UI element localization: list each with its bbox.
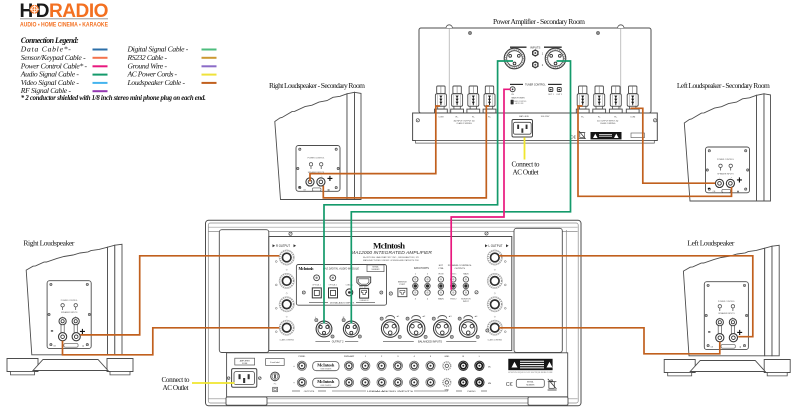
svg-text:GND: GND bbox=[444, 356, 449, 358]
svg-text:AC Outlet: AC Outlet bbox=[163, 384, 189, 392]
RCA jack 3 bottom row bbox=[393, 378, 402, 387]
small symbol square bbox=[273, 387, 278, 391]
RCA jack 1 bottom row bbox=[361, 378, 370, 387]
svg-text:Left Loudspeaker - Secondary R: Left Loudspeaker - Secondary Room bbox=[677, 81, 770, 90]
svg-text:OUT 2: OUT 2 bbox=[556, 94, 563, 96]
svg-text:C€: C€ bbox=[506, 382, 513, 388]
svg-text:+: + bbox=[327, 174, 333, 185]
svg-text:POWER CONTROL: POWER CONTROL bbox=[512, 101, 526, 103]
amp binding post R3 bbox=[279, 297, 294, 312]
output 2 XLR connectors bbox=[315, 317, 334, 338]
svg-text:USB AUDIO: USB AUDIO bbox=[359, 299, 369, 302]
svg-text:R-: R- bbox=[472, 117, 475, 119]
svg-text:CLASS 2 WIRING: CLASS 2 WIRING bbox=[456, 122, 472, 125]
amp binding post R1 bbox=[279, 250, 294, 265]
svg-text:POWER CONTROL: POWER CONTROL bbox=[61, 300, 78, 302]
wire: power control cable trigger bbox=[451, 89, 510, 289]
svg-text:SPEAKER INPUTS: SPEAKER INPUTS bbox=[718, 312, 735, 315]
svg-text:POWER CONTROL: POWER CONTROL bbox=[718, 301, 735, 303]
speaker: left loudspeaker main bbox=[664, 245, 790, 376]
svg-text:POWER CONTROL: POWER CONTROL bbox=[717, 159, 734, 161]
svg-text:AUDIO ▪ HOME CINEMA ▪ KARAOKE: AUDIO ▪ HOME CINEMA ▪ KARAOKE bbox=[20, 21, 109, 28]
amp binding post R4 bbox=[279, 320, 294, 335]
service port bbox=[398, 282, 407, 297]
svg-text:Left Loudspeaker: Left Loudspeaker bbox=[687, 238, 735, 247]
svg-text:MM: MM bbox=[488, 383, 492, 385]
svg-text:UNBALANCED INPUTS: UNBALANCED INPUTS bbox=[367, 390, 414, 393]
wire: AC power cord power amp bbox=[524, 137, 526, 159]
svg-text:OPTICAL 2: OPTICAL 2 bbox=[329, 283, 338, 286]
svg-text:* 2 conductor shielded with 1/: * 2 conductor shielded with 1/8 inch ste… bbox=[21, 95, 206, 102]
svg-text:MC: MC bbox=[488, 367, 492, 369]
svg-text:McIntosh: McIntosh bbox=[299, 266, 315, 271]
power control round connector bbox=[271, 372, 280, 386]
svg-text:CLASS 2 WIRING: CLASS 2 WIRING bbox=[279, 338, 294, 341]
svg-text:▮▮: ▮▮ bbox=[737, 190, 739, 193]
svg-text:GND: GND bbox=[445, 390, 450, 392]
panel screw right of balanced inputs bbox=[486, 329, 489, 332]
RCA jack 3 top row bbox=[393, 361, 402, 370]
svg-text:PWRD: PWRD bbox=[299, 356, 306, 358]
svg-text:TRIG 2: TRIG 2 bbox=[450, 299, 457, 301]
svg-text:HDMI (ARC): HDMI (ARC) bbox=[359, 285, 369, 288]
output 2 label bbox=[315, 340, 358, 343]
power amp CE + WEEE + warning label bbox=[570, 131, 644, 140]
phono jacks bbox=[459, 361, 484, 387]
WEEE bin icon bbox=[548, 379, 557, 390]
svg-text:BALANCED INPUTS: BALANCED INPUTS bbox=[418, 340, 442, 343]
McIntosh logo + model text bbox=[351, 240, 433, 261]
svg-text:PHONO: PHONO bbox=[467, 391, 475, 393]
wire: AC power cord integrated amp bbox=[192, 382, 235, 384]
power amp AC inlet bbox=[512, 115, 550, 137]
svg-text:INPUTS: INPUTS bbox=[530, 45, 540, 49]
svg-text:McIntosh: McIntosh bbox=[317, 363, 335, 368]
amp AC inlet bbox=[227, 369, 261, 388]
RCA jack PWR AMP top row bbox=[344, 361, 353, 370]
svg-text:OUTPUTS: OUTPUTS bbox=[455, 268, 466, 270]
svg-text:PORT: PORT bbox=[400, 284, 406, 286]
svg-text:◇: ◇ bbox=[494, 292, 496, 295]
svg-text:4Ω INPUT OUTPUT 4Ω: 4Ω INPUT OUTPUT 4Ω bbox=[453, 120, 475, 122]
amp binding post L1 bbox=[487, 250, 502, 265]
svg-text:◇: ◇ bbox=[286, 315, 288, 318]
power amp XLR input right bbox=[545, 48, 566, 69]
svg-text:SPEAKER INPUTS: SPEAKER INPUTS bbox=[61, 311, 78, 314]
wire: loudspeaker cable MA L4 to bottom-right speaker - bbox=[499, 328, 720, 354]
panel screw right of DA2 bbox=[389, 292, 392, 295]
wire: loudspeaker cable MA R1 to bottom-left speaker + bbox=[80, 256, 279, 335]
power amp base labels bbox=[416, 117, 657, 126]
power amp TUNER CONTROL header bbox=[510, 84, 562, 87]
svg-text:+: + bbox=[737, 176, 743, 187]
power amp binding post R1 bbox=[576, 86, 589, 113]
svg-text:MAIN POWER: MAIN POWER bbox=[511, 97, 525, 100]
svg-text:POWER CONTROL: POWER CONTROL bbox=[308, 157, 325, 159]
RCA jack labels bbox=[293, 355, 491, 385]
svg-text:INPUT: INPUT bbox=[463, 301, 470, 303]
svg-text:SERIAL: SERIAL bbox=[527, 381, 534, 384]
svg-text:McIntosh: McIntosh bbox=[317, 379, 335, 384]
wire: loudspeaker cable PA-R COM to top-right speaker - bbox=[631, 108, 716, 183]
svg-text:McIntosh: McIntosh bbox=[373, 240, 405, 250]
speaker: right loudspeaker main bbox=[7, 244, 133, 375]
power control label box bbox=[266, 359, 285, 366]
label: connect to AC outlet (power amp) bbox=[512, 161, 540, 177]
main rear panel bbox=[269, 237, 512, 351]
svg-text:F-unit label: F-unit label bbox=[270, 361, 280, 364]
svg-text:-: - bbox=[708, 183, 711, 193]
wire: audio signal cable XLR right bbox=[351, 61, 570, 324]
serial number box bbox=[516, 379, 544, 387]
wire: loudspeaker cable PA-R 1 to top-right speaker + bbox=[578, 106, 732, 196]
post side marks bbox=[275, 261, 506, 342]
svg-text:CTRL: CTRL bbox=[438, 268, 444, 270]
amp binding post L4 bbox=[487, 320, 502, 335]
svg-text:Right Loudspeaker: Right Loudspeaker bbox=[23, 238, 75, 247]
svg-text:R OUTPUT: R OUTPUT bbox=[276, 244, 290, 248]
wire: loudspeaker cable PA-L COM to top-left speaker - bbox=[310, 106, 440, 182]
svg-text:◇: ◇ bbox=[286, 292, 288, 295]
DA2 digital audio module bbox=[296, 265, 386, 306]
power amp binding post L3 bbox=[467, 86, 480, 113]
power amp trigger out jacks bbox=[548, 88, 563, 96]
speaker: left loudspeaker secondary room bbox=[684, 94, 770, 201]
lower panel section labels bbox=[292, 390, 487, 393]
RCA jack 1 top row bbox=[361, 361, 370, 370]
RCA jack 2 bottom row bbox=[377, 378, 386, 387]
RCA jack PWR AMP bottom row bbox=[344, 378, 353, 387]
power amp INPUTS header bbox=[510, 45, 562, 49]
power amp binding post L2 bbox=[451, 86, 464, 113]
power amp small jacks 1/2 bbox=[532, 49, 544, 68]
svg-text:MAIN: MAIN bbox=[463, 273, 469, 276]
svg-text:Right Loudspeaker - Secondary: Right Loudspeaker - Secondary Room bbox=[269, 81, 365, 90]
power amp binding post R3 bbox=[609, 86, 622, 113]
RCA jack PWRD top row bbox=[297, 361, 306, 370]
svg-text:▮▮: ▮▮ bbox=[327, 188, 329, 191]
svg-text:Power Amplifier - Secondary Ro: Power Amplifier - Secondary Room bbox=[493, 17, 585, 26]
svg-text:TUNER CONTROL: TUNER CONTROL bbox=[525, 84, 546, 87]
power control output jacks bbox=[448, 265, 473, 303]
svg-text:NUMBER: NUMBER bbox=[526, 385, 535, 387]
amp binding post R2 bbox=[279, 273, 294, 288]
power amp binding post L1 bbox=[435, 86, 448, 113]
svg-text:MAIN: MAIN bbox=[438, 298, 444, 301]
RCA jack 2 top row bbox=[377, 361, 386, 370]
power amp XLR input left bbox=[504, 48, 525, 69]
svg-text:-: - bbox=[708, 327, 711, 337]
svg-text:NUMBER: NUMBER bbox=[372, 269, 380, 271]
svg-text:▮: ▮ bbox=[740, 346, 741, 349]
svg-text:SPEAKER INPUTS: SPEAKER INPUTS bbox=[717, 172, 734, 175]
R OUTPUT label bbox=[273, 244, 297, 248]
svg-text:OUTPUTS: OUTPUTS bbox=[304, 391, 315, 393]
svg-text:◇: ◇ bbox=[494, 269, 496, 272]
balanced inputs label bbox=[383, 340, 476, 343]
svg-text:CLASS 2 WIRING: CLASS 2 WIRING bbox=[600, 122, 616, 125]
svg-text:COM: COM bbox=[630, 117, 635, 119]
svg-text:◇: ◇ bbox=[494, 315, 496, 318]
power amp binding post L4 bbox=[483, 86, 496, 113]
wire: audio signal cable XLR left bbox=[324, 61, 513, 324]
svg-text:MA12000 INTEGRATED AMPLIFIER: MA12000 INTEGRATED AMPLIFIER bbox=[351, 250, 433, 255]
svg-text:◇: ◇ bbox=[286, 269, 288, 272]
svg-text:MANUFACTURED UNDER LICENSE AND: MANUFACTURED UNDER LICENSE AND PATENTS P… bbox=[363, 259, 420, 262]
wire: loudspeaker cable MA R4 to bottom-left speaker - bbox=[63, 328, 280, 355]
svg-text:OPTICAL 1: OPTICAL 1 bbox=[312, 283, 321, 286]
RCA jack PWRD bottom row bbox=[297, 378, 306, 387]
wire: loudspeaker cable PA-L 4 to top-left speaker + bbox=[323, 106, 489, 198]
svg-text:IR IN: IR IN bbox=[438, 274, 443, 276]
svg-text:AC Outlet: AC Outlet bbox=[513, 169, 539, 177]
svg-text:DATA PORTS: DATA PORTS bbox=[414, 267, 429, 270]
svg-text:OUT 1: OUT 1 bbox=[548, 94, 555, 96]
svg-text:FUSE: FUSE bbox=[242, 363, 248, 365]
power amp trigger input jack bbox=[510, 87, 515, 96]
svg-text:Connect to: Connect to bbox=[512, 161, 540, 169]
balanced input XLR connectors bbox=[380, 315, 401, 338]
data ports jacks bbox=[413, 267, 431, 301]
svg-text:PWR AMP: PWR AMP bbox=[344, 355, 355, 358]
power amp main power switch bbox=[511, 97, 527, 105]
svg-text:4Ω OUTPUT INPUT 4Ω: 4Ω OUTPUT INPUT 4Ω bbox=[597, 120, 619, 122]
wire: loudspeaker cable MA L1 to bottom-right speaker + bbox=[499, 256, 753, 337]
RCA jack 5 bottom row bbox=[426, 378, 435, 387]
lower rear panel bbox=[227, 353, 568, 397]
logo HD Radio bbox=[20, 1, 109, 29]
svg-text:L OUTPUT: L OUTPUT bbox=[489, 244, 503, 248]
power amp binding post R2 bbox=[593, 86, 606, 113]
svg-text:▮: ▮ bbox=[82, 345, 83, 348]
ext ctrl jacks bbox=[438, 265, 444, 301]
svg-text:CLASS 2 WIRING: CLASS 2 WIRING bbox=[488, 338, 503, 341]
McIntosh label plates bbox=[313, 362, 339, 388]
svg-text:AMPLIFIER: AMPLIFIER bbox=[240, 359, 251, 362]
svg-text:DA2 DIGITAL AUDIO MODULE: DA2 DIGITAL AUDIO MODULE bbox=[323, 268, 359, 271]
amp binding post L2 bbox=[487, 273, 502, 288]
legend: connection legend bbox=[20, 36, 217, 102]
ground posts bbox=[443, 362, 451, 386]
amp binding post L3 bbox=[487, 297, 502, 312]
RCA jack 5 top row bbox=[426, 361, 435, 370]
label: connect to AC outlet (integrated amp) bbox=[162, 376, 190, 392]
amplifier fuse label bbox=[235, 358, 255, 365]
svg-text:Loudspeaker Cable -: Loudspeaker Cable - bbox=[127, 78, 186, 87]
power amplifier chassis bbox=[413, 25, 658, 143]
RCA jack 4 top row bbox=[410, 361, 419, 370]
svg-text:+: + bbox=[80, 327, 86, 338]
svg-text:-: - bbox=[51, 326, 54, 336]
panel screw right of power control bbox=[475, 291, 478, 294]
svg-text:Connect to: Connect to bbox=[162, 376, 190, 384]
svg-text:MAT-LEVE: MAT-LEVE bbox=[519, 115, 529, 118]
RCA jack 4 bottom row bbox=[410, 378, 419, 387]
svg-text:-: - bbox=[298, 181, 301, 191]
power amp binding post R4 bbox=[626, 86, 639, 113]
svg-text:100-120V: 100-120V bbox=[541, 116, 550, 118]
svg-text:McINTOSH LABORATORY INC., BING: McINTOSH LABORATORY INC., BINGHAMTON, NY bbox=[363, 256, 420, 259]
warning label bbox=[508, 359, 553, 374]
integrated amplifier chassis bbox=[206, 220, 582, 405]
svg-text:R-: R- bbox=[598, 117, 601, 119]
svg-text:COM: COM bbox=[438, 117, 443, 119]
L OUTPUT label bbox=[485, 244, 509, 248]
svg-text:OUTPUT 2: OUTPUT 2 bbox=[332, 340, 344, 343]
speaker: right loudspeaker secondary room bbox=[275, 92, 361, 199]
